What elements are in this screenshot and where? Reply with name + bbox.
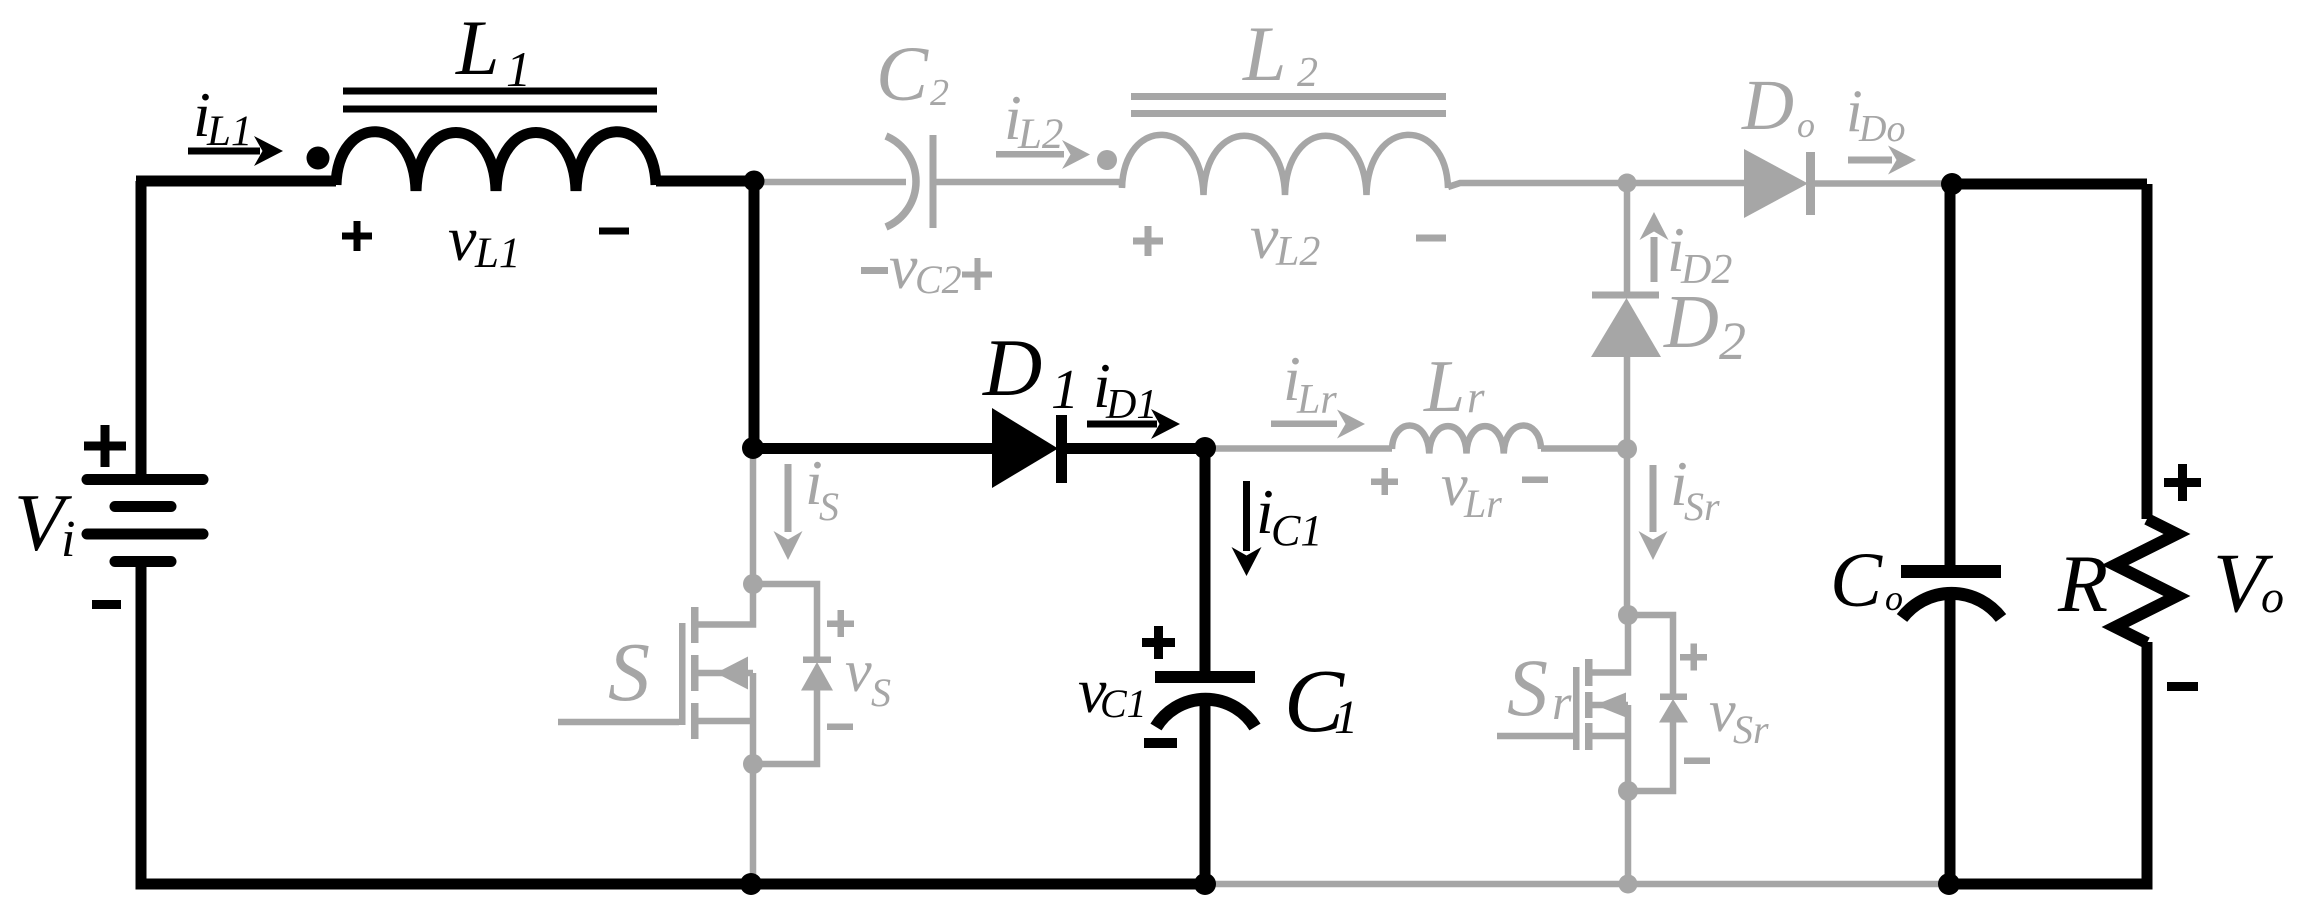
svg-text:C: C bbox=[1830, 536, 1883, 623]
svg-text:S: S bbox=[871, 670, 891, 715]
transistor S bbox=[558, 574, 833, 774]
svg-text:C1: C1 bbox=[1100, 681, 1147, 726]
wire node A to C2 bbox=[754, 179, 906, 186]
node D1-S junction dot bbox=[742, 437, 764, 459]
vL1 plus bbox=[342, 221, 372, 251]
capacitor Co curved plate bbox=[1902, 593, 2001, 618]
svg-text:D: D bbox=[1741, 65, 1794, 145]
svg-text:1: 1 bbox=[1334, 691, 1358, 744]
vL2 plus bbox=[1133, 226, 1163, 256]
vLr plus bbox=[1371, 468, 1398, 495]
svg-text:1: 1 bbox=[506, 41, 531, 97]
wire node A down to D1 row bbox=[749, 181, 760, 448]
svg-text:L2: L2 bbox=[1017, 111, 1063, 158]
wire Co branch upper bbox=[1945, 184, 1956, 565]
svg-text:S: S bbox=[1507, 642, 1548, 733]
wire bottom gray segment bbox=[1205, 881, 1949, 888]
wire node B down to C1 bbox=[1200, 449, 1211, 672]
vSr minus bbox=[1684, 758, 1710, 765]
current arrow iD2 bbox=[1640, 212, 1669, 282]
Sr body connection arrow bbox=[1592, 702, 1628, 709]
current arrow iLr bbox=[1271, 410, 1365, 439]
Sr channel bars bbox=[1585, 659, 1593, 686]
diode Do cathode bar bbox=[1806, 152, 1815, 215]
svg-text:2: 2 bbox=[1719, 311, 1746, 371]
wire left rail bottom bbox=[136, 563, 147, 890]
inductor L1 winding bbox=[336, 132, 656, 191]
node D2 top junction dot bbox=[1618, 174, 1637, 193]
svg-text:1: 1 bbox=[1051, 359, 1079, 421]
S drain lead bbox=[698, 584, 753, 625]
diode D1 cathode bar bbox=[1056, 415, 1067, 483]
wire C2 to L2 bbox=[936, 182, 1122, 187]
svg-text:D: D bbox=[982, 322, 1042, 413]
S body diode bbox=[753, 584, 817, 764]
current arrow iL2 bbox=[996, 140, 1090, 169]
svg-text:L: L bbox=[1423, 346, 1465, 428]
battery Vi minus bbox=[92, 600, 121, 609]
wire L1 to node A bbox=[656, 176, 754, 187]
transistor Sr bbox=[1497, 605, 1688, 801]
S body connection arrow bbox=[698, 670, 753, 677]
inductor L1 core bars bbox=[343, 91, 657, 109]
svg-text:L: L bbox=[1242, 10, 1286, 97]
node bottom S junction dot bbox=[740, 873, 762, 895]
wire R branch lower bbox=[2142, 642, 2153, 890]
vC2 minus sign bbox=[861, 267, 888, 274]
svg-text:i: i bbox=[61, 511, 75, 568]
svg-text:D: D bbox=[1663, 280, 1719, 364]
inductor L1 phasing dot bbox=[307, 147, 330, 170]
wire node B to Lr bbox=[1205, 445, 1392, 452]
current arrow iC1 bbox=[1232, 481, 1262, 576]
vLr minus bbox=[1522, 477, 1548, 484]
wire top-left to L1 bbox=[136, 176, 336, 187]
Sr drain lead bbox=[1592, 615, 1628, 673]
node C Lr-D2-Sr junction dot bbox=[1617, 439, 1637, 459]
svg-text:L: L bbox=[455, 4, 499, 91]
svg-text:o: o bbox=[2261, 571, 2284, 622]
vS plus bbox=[827, 610, 854, 637]
wire D1 cathode to node B bbox=[1060, 443, 1205, 454]
wire S branch from D1 node bbox=[750, 448, 757, 584]
svg-text:C2: C2 bbox=[915, 257, 962, 302]
battery Vi plates bbox=[87, 480, 203, 562]
svg-text:2: 2 bbox=[1297, 50, 1318, 96]
svg-text:v: v bbox=[1709, 678, 1736, 744]
capacitor C2 curved plate bbox=[886, 136, 916, 227]
Vo minus bbox=[2167, 682, 2198, 691]
Sr gate lead bbox=[1497, 733, 1573, 740]
svg-text:D1: D1 bbox=[1105, 382, 1157, 428]
wire Sr to bottom bbox=[1625, 791, 1632, 884]
svg-text:r: r bbox=[1467, 372, 1485, 422]
wire C1 to bottom bbox=[1200, 698, 1211, 884]
svg-text:o: o bbox=[1885, 578, 1903, 618]
inductor L2 core bars bbox=[1131, 97, 1446, 114]
wire left rail top bbox=[136, 181, 147, 476]
diode D2 triangle bbox=[1591, 298, 1661, 357]
Sr drain dot bbox=[1618, 605, 1638, 625]
wire Lr to node C bbox=[1541, 445, 1627, 452]
svg-text:L1: L1 bbox=[206, 108, 252, 155]
S gate bar bbox=[679, 623, 686, 725]
vC1 minus bbox=[1144, 738, 1177, 748]
wire node D2 to Do bbox=[1627, 180, 1746, 187]
svg-text:S: S bbox=[819, 484, 839, 529]
diode D1 triangle bbox=[992, 408, 1058, 488]
current arrow iDo bbox=[1848, 146, 1916, 175]
vL1 minus bbox=[599, 228, 629, 235]
svg-text:o: o bbox=[1797, 105, 1815, 145]
svg-text:C1: C1 bbox=[1271, 506, 1322, 555]
capacitor C1 curved plate bbox=[1156, 699, 1255, 727]
Sr source dot bbox=[1618, 781, 1638, 801]
capacitor C2 straight plate bbox=[930, 135, 937, 228]
wire Co branch lower bbox=[1945, 592, 1956, 884]
svg-text:v: v bbox=[845, 638, 872, 704]
inductor L2 winding bbox=[1122, 135, 1448, 195]
battery Vi plus bbox=[84, 425, 126, 467]
svg-text:v: v bbox=[889, 231, 918, 302]
vC2 plus sign bbox=[962, 258, 992, 290]
S drain dot bbox=[743, 574, 763, 594]
wire top-right Co to R bbox=[1952, 179, 2147, 190]
vS minus bbox=[827, 724, 853, 731]
diode Do triangle bbox=[1744, 149, 1808, 218]
svg-text:v: v bbox=[448, 203, 477, 274]
Sr body diode bbox=[1628, 615, 1673, 791]
S gate lead bbox=[558, 719, 679, 726]
node Do-Co junction dot bbox=[1941, 173, 1963, 195]
current arrow iSr bbox=[1639, 465, 1668, 560]
wire D2 branch upper bbox=[1624, 183, 1631, 294]
svg-text:C: C bbox=[876, 30, 929, 117]
wire node C down to Sr bbox=[1624, 449, 1631, 615]
wire S to bottom bbox=[750, 764, 757, 884]
node B D1-C1-Lr junction dot bbox=[1194, 437, 1216, 459]
current arrow iL1 bbox=[188, 136, 283, 166]
S source lead bbox=[698, 673, 753, 764]
svg-text:2: 2 bbox=[930, 72, 949, 114]
svg-text:R: R bbox=[2057, 538, 2108, 629]
svg-text:Sr: Sr bbox=[1684, 484, 1720, 529]
svg-text:Lr: Lr bbox=[1296, 377, 1337, 423]
svg-text:v: v bbox=[1250, 201, 1279, 272]
diode D2 cathode bar bbox=[1592, 292, 1659, 299]
S channel bars bbox=[691, 607, 699, 643]
svg-text:Lr: Lr bbox=[1463, 481, 1502, 526]
vC1 plus bbox=[1142, 626, 1175, 659]
Sr source lead bbox=[1592, 705, 1628, 791]
inductor Lr winding bbox=[1392, 426, 1541, 454]
wire R branch upper bbox=[2142, 184, 2153, 519]
node bottom C1 junction dot bbox=[1194, 873, 1216, 895]
current arrow iS bbox=[774, 464, 803, 560]
current arrow iD1 bbox=[1087, 409, 1180, 439]
wire bottom-left bbox=[141, 879, 1205, 890]
wire D1 row left segment bbox=[754, 443, 994, 454]
Vo plus bbox=[2164, 464, 2201, 501]
node bottom Co junction dot bbox=[1938, 873, 1960, 895]
resistor R zigzag bbox=[2115, 519, 2177, 643]
node bottom Sr junction dot bbox=[1619, 875, 1638, 894]
S source dot bbox=[743, 754, 763, 774]
svg-text:L1: L1 bbox=[474, 230, 520, 277]
svg-text:r: r bbox=[1552, 674, 1572, 730]
node A junction dot bbox=[744, 171, 765, 192]
svg-text:Do: Do bbox=[1858, 108, 1905, 150]
wire L2 to node D2 bbox=[1448, 183, 1627, 187]
wire D2 branch lower bbox=[1624, 355, 1631, 449]
svg-text:Sr: Sr bbox=[1733, 707, 1769, 752]
wire Do to node Co bbox=[1812, 180, 1952, 187]
capacitor C1 top plate bbox=[1155, 671, 1255, 683]
Sr gate bar bbox=[1573, 667, 1580, 750]
inductor L2 phasing dot bbox=[1097, 150, 1117, 170]
vSr plus bbox=[1680, 644, 1707, 671]
vL2 minus bbox=[1416, 235, 1446, 242]
wire bottom-right bbox=[1949, 879, 2153, 890]
svg-text:L2: L2 bbox=[1275, 229, 1320, 275]
capacitor Co top plate bbox=[1901, 565, 2001, 578]
svg-text:S: S bbox=[608, 626, 650, 719]
